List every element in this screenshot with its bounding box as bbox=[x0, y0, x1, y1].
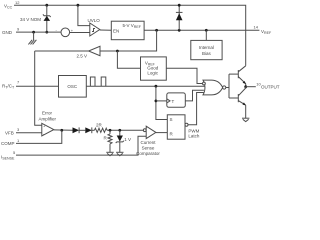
block VREF good logic bbox=[141, 57, 167, 80]
wire clamp line bbox=[107, 129, 143, 131]
svg-text:2R: 2R bbox=[96, 123, 103, 128]
wire EA output bbox=[54, 129, 73, 131]
latch PWM bbox=[167, 115, 200, 139]
block internal bias bbox=[191, 40, 222, 59]
clock pulses bbox=[90, 77, 95, 86]
ground zener bbox=[116, 152, 123, 155]
node chassis gnd tap bbox=[32, 31, 35, 34]
svg-text:OSC: OSC bbox=[67, 84, 78, 89]
svg-text:2.5 V: 2.5 V bbox=[77, 54, 88, 59]
wire RT/CT line bbox=[16, 85, 59, 87]
svg-text:Sense: Sense bbox=[142, 145, 155, 150]
svg-text:1 V: 1 V bbox=[124, 137, 131, 142]
resistor 2R bbox=[94, 123, 107, 133]
transistor Q2 low side bbox=[238, 87, 246, 119]
wire VG logic feed bbox=[117, 51, 140, 68]
wire GND line bbox=[16, 31, 61, 33]
block OSC bbox=[59, 76, 87, 98]
gate NOR output bbox=[203, 80, 226, 95]
node bias tap bbox=[205, 29, 208, 32]
wire T to gate bbox=[185, 90, 204, 101]
svg-text:EN: EN bbox=[113, 28, 119, 33]
block 5-V VREF bbox=[111, 21, 144, 40]
ground output stage bbox=[242, 118, 249, 121]
wire latch to gate bbox=[188, 93, 204, 125]
zener diode 34 V NOM bbox=[20, 14, 51, 22]
flip-flop T bbox=[167, 93, 186, 107]
svg-text:S: S bbox=[170, 117, 173, 122]
wire gate output to bases bbox=[226, 74, 239, 98]
diode D1 bbox=[73, 127, 80, 133]
svg-text:Current: Current bbox=[140, 140, 156, 145]
wire T feed bbox=[156, 100, 167, 102]
wire VFB line bbox=[16, 132, 42, 134]
diode VREF to VCC bbox=[176, 5, 183, 30]
comparator current sense bbox=[136, 126, 160, 156]
wire buffer to VREF rail bbox=[100, 30, 157, 51]
node 2.5V tap bbox=[155, 29, 158, 32]
op-amp UVLO comparator bbox=[88, 18, 101, 36]
svg-text:12: 12 bbox=[15, 0, 20, 5]
svg-text:Comparator: Comparator bbox=[136, 151, 160, 156]
wire bbox=[79, 129, 85, 131]
node R tap bbox=[109, 129, 112, 132]
wire VREF rail bbox=[144, 29, 259, 31]
svg-text:34 V NOM: 34 V NOM bbox=[20, 17, 41, 22]
node clock S/T tap bbox=[155, 85, 158, 88]
node VG logic tap bbox=[116, 50, 119, 53]
wire UVLO output to EN bbox=[100, 29, 112, 31]
voltage source UVLO reference bbox=[56, 28, 74, 37]
wire 2.5V line left bbox=[35, 50, 89, 52]
node zener top bbox=[45, 4, 48, 7]
node diode top bbox=[178, 4, 181, 7]
wire to chassis ground bbox=[33, 32, 35, 40]
node COMP junction bbox=[60, 129, 63, 132]
wire internal bias feed bbox=[205, 30, 207, 41]
wire clock to S input bbox=[156, 86, 167, 119]
buffer 2.5 V reference bbox=[77, 46, 101, 58]
svg-text:COMP: COMP bbox=[1, 141, 15, 146]
wire comparator to R input bbox=[156, 132, 167, 134]
wire bbox=[92, 129, 95, 131]
wire COMP line bbox=[16, 130, 62, 143]
resistor R bbox=[104, 130, 113, 152]
svg-text:14: 14 bbox=[254, 25, 259, 30]
wire UVLO top input bbox=[78, 5, 90, 25]
node UVLO feed bbox=[77, 4, 80, 7]
wire VCC top rail bbox=[14, 5, 246, 66]
svg-text:Internal: Internal bbox=[199, 45, 214, 50]
wire source to UVLO bbox=[70, 32, 90, 34]
svg-text:Amplifier: Amplifier bbox=[39, 117, 57, 122]
wire zener branch bbox=[46, 5, 48, 32]
op-amp error amplifier bbox=[39, 111, 57, 137]
wire clock line bbox=[86, 85, 204, 87]
node zener tap bbox=[118, 129, 121, 132]
ground R bbox=[106, 152, 113, 155]
wire output pin bbox=[246, 86, 256, 88]
svg-text:OUTPUT: OUTPUT bbox=[261, 85, 280, 90]
wire 2.5V to error amp bbox=[35, 51, 42, 125]
node diode tap bbox=[178, 29, 181, 32]
ground chassis bbox=[28, 40, 36, 45]
diode D2 bbox=[85, 127, 92, 133]
svg-text:Error: Error bbox=[42, 111, 53, 116]
zener 1 V bbox=[116, 130, 131, 152]
wire ISENSE line bbox=[16, 136, 146, 155]
svg-text:GND: GND bbox=[2, 30, 13, 35]
svg-text:Latch: Latch bbox=[188, 133, 200, 138]
transistor Q1 high side bbox=[238, 66, 246, 87]
wire VG logic to gate bbox=[166, 68, 202, 83]
node zener bottom bbox=[45, 31, 48, 34]
node output bbox=[244, 85, 247, 88]
svg-text:T: T bbox=[172, 99, 175, 104]
node T branch bbox=[155, 100, 158, 103]
svg-text:VFB: VFB bbox=[5, 131, 14, 136]
svg-text:Bias: Bias bbox=[202, 51, 212, 56]
svg-text:Logic: Logic bbox=[147, 70, 159, 75]
